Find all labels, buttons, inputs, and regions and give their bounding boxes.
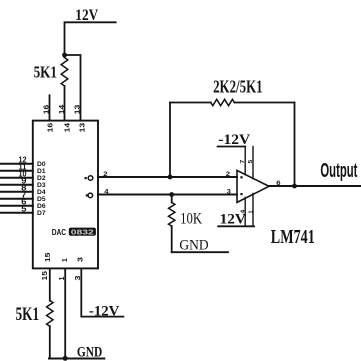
svg-text:0832: 0832 [71, 227, 94, 236]
svg-text:16: 16 [46, 123, 55, 133]
wire 12V rail [65, 22, 116, 55]
svg-text:5K1: 5K1 [16, 304, 40, 325]
svg-text:2: 2 [226, 171, 231, 178]
IC U1 DAC0832 body [33, 121, 98, 269]
wire 12V underline [218, 225, 254, 227]
wire R2 bottom lead [49, 326, 51, 358]
wire DAC output lower [98, 194, 237, 196]
svg-text:3: 3 [227, 189, 232, 196]
svg-text:2K2/5K1: 2K2/5K1 [213, 77, 263, 97]
wire D7 input [0, 212, 33, 214]
wire DAC output upper [98, 176, 237, 178]
wire pin3 to -12V [81, 268, 123, 316]
resistor R4 2K2/5K1 [211, 99, 235, 105]
svg-text:15: 15 [40, 271, 49, 281]
svg-text:1: 1 [248, 210, 254, 213]
wire feedback top left lead [170, 102, 211, 104]
svg-text:4: 4 [240, 209, 246, 213]
node junction 10K tap [169, 192, 174, 197]
pin symbol Iout2 circle [88, 193, 93, 198]
op-amp U2 triangle [237, 170, 269, 202]
node junction feedback/inverting input [168, 175, 173, 180]
svg-text:5: 5 [248, 159, 254, 163]
svg-text:5: 5 [21, 205, 27, 214]
svg-text:1: 1 [60, 258, 69, 262]
svg-text:GND: GND [77, 345, 103, 361]
wire pin5 stub top [252, 147, 254, 179]
svg-text:15: 15 [43, 253, 52, 263]
label U1 0832 block [69, 228, 96, 236]
pin symbol Iout1 circle [88, 176, 93, 181]
svg-text:D5: D5 [37, 196, 46, 203]
wire 10K bottom lead [171, 226, 173, 252]
wire pin4 stub [244, 198, 246, 227]
op-amp non-inverting mark [240, 193, 242, 195]
svg-text:D4: D4 [37, 189, 46, 196]
wire pin16 stub [49, 95, 51, 120]
wire pin1 stub bottom [252, 194, 254, 227]
wire D5 input [0, 198, 33, 200]
wire D1 input [0, 170, 33, 172]
wire feedback top right lead [234, 102, 294, 104]
svg-text:D6: D6 [37, 203, 46, 210]
svg-text:7: 7 [240, 159, 246, 163]
svg-text:14: 14 [57, 104, 66, 114]
svg-text:16: 16 [42, 105, 51, 115]
wire output [269, 185, 361, 187]
resistor R2 5K1 [47, 301, 53, 327]
wire D2 input [0, 177, 33, 179]
svg-text:-12V: -12V [89, 304, 120, 320]
wire D6 input [0, 205, 33, 207]
wire D4 input [0, 191, 33, 193]
wire D0 input [0, 163, 33, 165]
node junction 12V/5K1 [62, 53, 67, 58]
wire feedback right vertical [294, 103, 296, 187]
wire feedback left vertical [169, 103, 171, 178]
svg-text:Output: Output [320, 160, 357, 182]
node junction feedback/output [292, 184, 297, 189]
pin symbol Iout2 dot [86, 194, 88, 196]
op-amp inverting mark [240, 176, 242, 178]
wire GND stub [172, 251, 228, 253]
wire pin14 lead [64, 86, 66, 121]
wire -12V underline [218, 146, 246, 148]
wire 10K top lead [171, 195, 173, 203]
wire D3 input [0, 184, 33, 186]
svg-text:LM741: LM741 [271, 226, 315, 248]
svg-text:D7: D7 [37, 210, 46, 217]
svg-text:3: 3 [75, 257, 84, 262]
wire pin7 stub [244, 147, 246, 175]
svg-text:13: 13 [78, 123, 87, 133]
svg-text:10K: 10K [180, 211, 203, 228]
wire pin1 to ground [64, 268, 66, 358]
svg-text:2: 2 [103, 171, 108, 178]
svg-text:D2: D2 [37, 175, 46, 182]
svg-text:D3: D3 [37, 182, 46, 189]
wire pin15 lead [49, 268, 51, 300]
resistor R1 5K1 [61, 58, 68, 87]
svg-text:4: 4 [104, 189, 109, 196]
pin symbol Iout1 dot [85, 177, 87, 179]
svg-text:DAC: DAC [52, 228, 67, 237]
wire ground rail [49, 358, 104, 360]
wire 5K1 top lead [64, 55, 66, 58]
svg-text:14: 14 [63, 122, 72, 132]
wire branch to pin13 [65, 55, 81, 121]
svg-text:GND: GND [179, 238, 208, 254]
svg-text:5K1: 5K1 [34, 62, 57, 81]
svg-text:D1: D1 [37, 168, 46, 175]
resistor R3 10K [169, 202, 175, 226]
node junction ground [63, 356, 68, 361]
svg-text:D0: D0 [37, 161, 46, 168]
svg-text:13: 13 [73, 105, 82, 115]
